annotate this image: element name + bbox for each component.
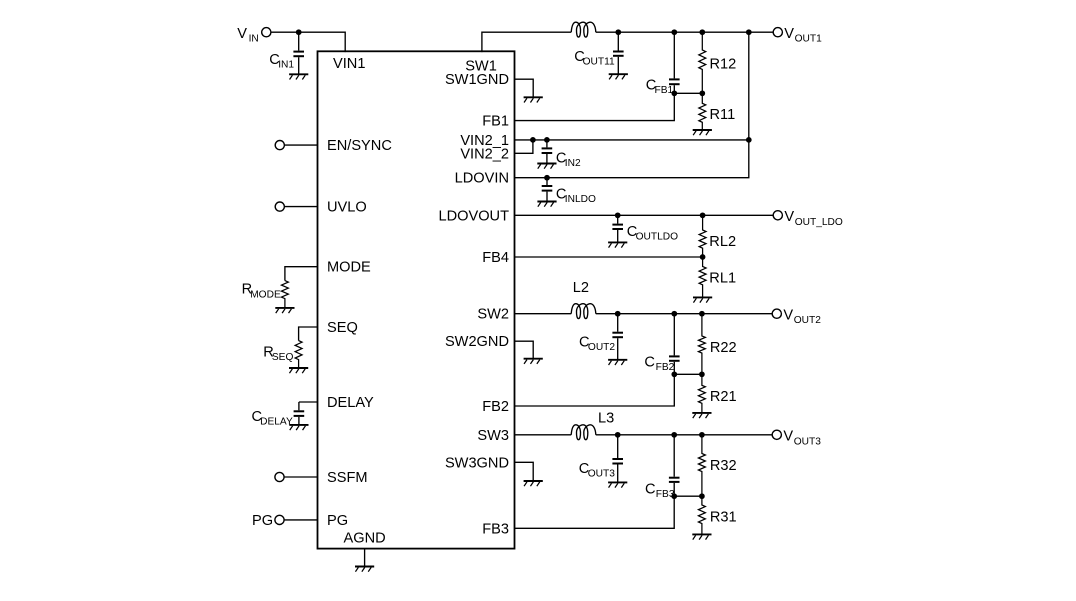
node trunk/VIN2_1 junction	[746, 137, 752, 143]
ground COUT2	[608, 360, 627, 365]
terminal UVLO	[275, 202, 284, 211]
svg-text:SW3GND: SW3GND	[445, 455, 509, 471]
svg-text:OUT2: OUT2	[794, 315, 822, 326]
wire L1 to VOUT1	[596, 31, 774, 33]
svg-text:LDOVIN: LDOVIN	[455, 171, 509, 187]
svg-text:DELAY: DELAY	[327, 395, 374, 411]
inductor L2	[571, 304, 596, 319]
svg-text:R11: R11	[710, 107, 736, 123]
node VIN/CIN1 junction	[296, 29, 302, 35]
wire FB2	[515, 374, 675, 406]
node R12/R11 junction	[699, 90, 705, 96]
net label VOUT_LDO	[784, 209, 842, 228]
node CFB2 tap	[671, 311, 677, 317]
ground AGND	[355, 567, 374, 572]
wire L2 to VOUT2	[596, 313, 773, 315]
node CFB1 bottom	[671, 90, 677, 96]
svg-text:L2: L2	[573, 280, 589, 296]
ground COUT3	[608, 482, 627, 487]
svg-text:V: V	[784, 26, 794, 42]
svg-text:MODE: MODE	[327, 260, 371, 276]
label CIN1	[269, 52, 294, 71]
IC U1 PMIC body	[318, 51, 515, 548]
svg-text:FB3: FB3	[482, 521, 509, 537]
wire trunk to LDOVIN	[515, 140, 749, 178]
terminal EN/SYNC	[275, 141, 284, 150]
svg-text:SW2: SW2	[477, 307, 509, 323]
node CINLDO tap	[544, 175, 550, 181]
svg-text:V: V	[237, 26, 247, 42]
wire CFB1 to R12/R11 junction	[674, 92, 702, 94]
svg-text:PG: PG	[327, 513, 348, 529]
svg-text:R32: R32	[710, 458, 737, 474]
terminal VOUT2	[772, 309, 781, 318]
wire FB4	[515, 256, 703, 258]
capacitor CDELAY	[294, 402, 305, 425]
wire VIN to VIN1	[271, 32, 345, 52]
ground CINLDO	[537, 202, 556, 207]
node RL2/RL1 junction	[700, 254, 706, 260]
svg-text:R21: R21	[710, 389, 737, 405]
node CFB3 tap	[671, 432, 677, 438]
wire FB3	[515, 496, 675, 528]
wire VIN2_2	[515, 140, 533, 153]
net label VOUT2	[783, 308, 821, 327]
node R12 tap	[699, 29, 705, 35]
wire L3 to VOUT3	[596, 434, 773, 436]
label CDELAY	[252, 409, 293, 428]
label CINLDO	[556, 186, 596, 205]
svg-text:V: V	[784, 209, 794, 225]
resistor R22	[698, 314, 705, 375]
svg-text:PG: PG	[252, 513, 273, 529]
node VIN2 trunk tap	[746, 29, 752, 35]
ground SW2GND	[524, 359, 543, 364]
ground CIN2	[537, 164, 556, 169]
capacitor COUT2	[612, 314, 623, 360]
resistor RSEQ	[295, 341, 302, 368]
svg-text:IN2: IN2	[565, 158, 581, 169]
node CIN2 tap	[544, 137, 550, 143]
resistor RL2	[699, 215, 706, 257]
resistor R21	[698, 374, 705, 413]
node CFB1 tap	[671, 29, 677, 35]
node COUT2 tap	[615, 311, 621, 317]
svg-text:IN: IN	[249, 34, 259, 45]
terminal VOUT_LDO	[773, 211, 782, 220]
terminal VOUT1	[773, 28, 782, 37]
svg-text:RL2: RL2	[709, 234, 736, 250]
svg-text:OUT11: OUT11	[583, 57, 615, 68]
svg-text:V: V	[783, 308, 793, 324]
svg-text:SSFM: SSFM	[327, 470, 368, 486]
svg-text:FB1: FB1	[655, 85, 674, 96]
label COUT11	[574, 49, 615, 68]
svg-text:OUT_LDO: OUT_LDO	[795, 217, 843, 228]
label CFB1	[646, 78, 674, 97]
svg-text:MODE: MODE	[250, 289, 281, 300]
net label VIN	[237, 26, 259, 45]
capacitor CFB3	[669, 435, 680, 496]
svg-text:VIN2_2: VIN2_2	[460, 146, 509, 162]
wire LDOVOUT to VOUT_LDO	[515, 214, 774, 216]
terminal SSFM	[275, 472, 284, 481]
svg-text:RL1: RL1	[709, 270, 736, 286]
wire SW3GND	[515, 462, 534, 481]
wire PG	[284, 519, 318, 521]
resistor R32	[698, 435, 705, 496]
wire SW3 to L3	[515, 434, 572, 436]
net label VOUT3	[783, 429, 821, 448]
node COUT3 tap	[615, 432, 621, 438]
capacitor CIN2	[542, 140, 553, 164]
label CIN2	[556, 151, 581, 170]
label CFB2	[644, 355, 674, 374]
node CFB3 bottom	[671, 493, 677, 499]
node R22/R21 junction	[699, 371, 705, 377]
wire EN/SYNC	[284, 144, 317, 146]
svg-text:FB2: FB2	[482, 399, 509, 415]
ground CIN1	[289, 74, 308, 79]
svg-text:FB4: FB4	[482, 250, 509, 266]
wire SW2 to L2	[515, 313, 572, 315]
svg-text:OUT3: OUT3	[794, 436, 822, 447]
label COUT3	[579, 461, 615, 480]
label RMODE	[242, 282, 281, 301]
terminal PG	[275, 515, 284, 524]
wire VIN2_1	[515, 139, 749, 141]
ground RMODE	[275, 308, 294, 313]
label CFB3	[645, 482, 675, 501]
node R32/R31 junction	[699, 493, 705, 499]
node RL2 tap	[700, 212, 706, 218]
resistor R12	[699, 32, 706, 93]
svg-text:SEQ: SEQ	[327, 320, 358, 336]
svg-text:UVLO: UVLO	[327, 200, 367, 216]
node R22 tap	[699, 311, 705, 317]
svg-text:SEQ: SEQ	[272, 352, 294, 363]
ground RSEQ	[289, 368, 308, 373]
svg-text:EN/SYNC: EN/SYNC	[327, 138, 392, 154]
capacitor COUTLDO	[612, 215, 623, 242]
wire SW1GND	[515, 79, 534, 97]
wire UVLO	[284, 206, 317, 208]
node COUT11 tap	[615, 29, 621, 35]
node R32 tap	[699, 432, 705, 438]
wire FB1	[515, 93, 675, 120]
svg-text:R31: R31	[710, 510, 737, 526]
svg-text:OUT1: OUT1	[795, 34, 823, 45]
resistor R31	[698, 496, 705, 534]
svg-text:VIN1: VIN1	[333, 56, 365, 72]
ground R31	[692, 534, 711, 539]
svg-text:C: C	[645, 482, 656, 498]
svg-text:INLDO: INLDO	[565, 194, 596, 205]
ground R21	[692, 413, 711, 418]
svg-text:LDOVOUT: LDOVOUT	[438, 208, 509, 224]
net label VOUT1	[784, 26, 822, 45]
capacitor CIN1	[293, 32, 304, 74]
terminal VIN	[262, 28, 271, 37]
capacitor COUT11	[613, 32, 624, 74]
node VIN2_2 riser junction	[530, 137, 536, 143]
node CFB2 bottom	[671, 371, 677, 377]
ground COUTLDO	[608, 242, 627, 247]
svg-text:R12: R12	[710, 57, 737, 73]
ground COUT11	[609, 74, 628, 79]
capacitor CFB1	[669, 32, 680, 93]
svg-text:SW1GND: SW1GND	[445, 72, 509, 88]
label COUTLDO	[627, 224, 678, 243]
wire AGND	[364, 549, 366, 567]
wire CFB2 to R22/R21 junction	[674, 373, 702, 375]
svg-text:OUTLDO: OUTLDO	[636, 232, 679, 243]
wire SEQ to RSEQ	[299, 327, 318, 341]
node COUTLDO tap	[615, 212, 621, 218]
svg-text:FB2: FB2	[656, 362, 675, 373]
wire MODE to RMODE	[285, 267, 318, 281]
resistor RL1	[699, 257, 706, 297]
resistor R11	[699, 93, 706, 130]
svg-text:R22: R22	[710, 340, 737, 356]
svg-text:IN1: IN1	[278, 60, 294, 71]
svg-text:FB1: FB1	[482, 114, 509, 130]
wire DELAY to CDELAY	[299, 401, 318, 403]
svg-text:OUT3: OUT3	[588, 469, 616, 480]
wire CFB3 to R32/R31 junction	[674, 495, 702, 497]
wire SSFM	[284, 476, 318, 478]
capacitor CINLDO	[542, 178, 553, 202]
svg-text:OUT2: OUT2	[588, 342, 616, 353]
label RSEQ	[263, 345, 293, 364]
wire VOUT1 trunk down to VIN2_1	[748, 32, 750, 140]
svg-text:L3: L3	[598, 410, 614, 426]
inductor L1	[571, 22, 596, 37]
ground R11	[693, 130, 712, 135]
svg-text:DELAY: DELAY	[260, 417, 293, 428]
wire SW1 to L1	[482, 32, 571, 52]
svg-text:C: C	[644, 355, 655, 371]
terminal VOUT3	[772, 430, 781, 439]
label COUT2	[579, 335, 615, 354]
capacitor CFB2	[669, 314, 680, 375]
svg-text:SW2GND: SW2GND	[445, 334, 509, 350]
svg-text:AGND: AGND	[344, 531, 386, 547]
capacitor COUT3	[612, 435, 623, 483]
ground SW1GND	[524, 97, 543, 102]
ground RL1	[693, 297, 712, 302]
svg-text:V: V	[783, 429, 793, 445]
wire SW2GND	[515, 341, 534, 358]
svg-text:SW3: SW3	[477, 428, 509, 444]
inductor L3	[571, 425, 596, 440]
ground CDELAY	[289, 425, 308, 430]
ground SW3GND	[524, 481, 543, 486]
resistor RMODE	[281, 281, 288, 308]
